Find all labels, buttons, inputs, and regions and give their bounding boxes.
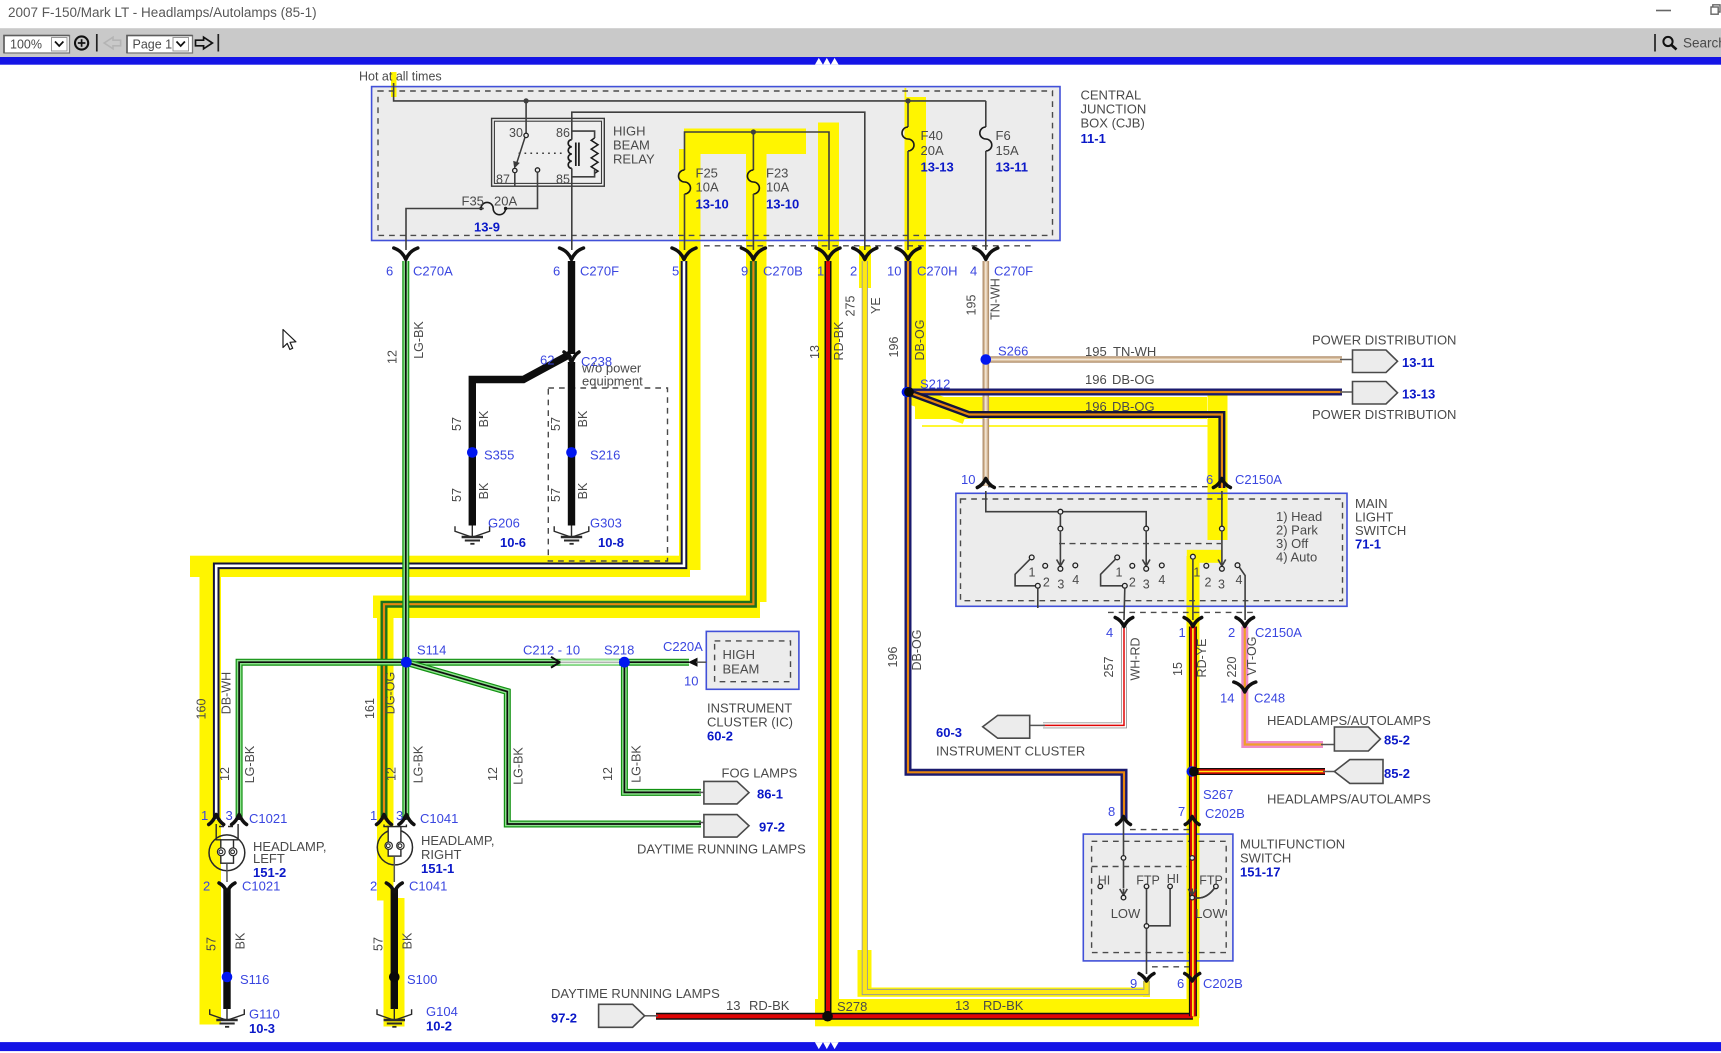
MLS connector dashed line top: [988, 486, 1212, 488]
bulb stem headlamp right: [393, 856, 395, 882]
svg-text:TN-WH: TN-WH: [1113, 344, 1156, 359]
connector C1021 pin2 exit arrow: [219, 883, 235, 892]
svg-text:4: 4: [970, 264, 977, 279]
connector MFS pin8 entry arrow: [1117, 817, 1131, 825]
svg-text:97-2: 97-2: [759, 820, 785, 835]
bulb plug headlamp left: [216, 824, 238, 840]
svg-text:DB-OG: DB-OG: [910, 630, 924, 671]
svg-text:BEAM: BEAM: [613, 138, 650, 153]
svg-text:INSTRUMENT: INSTRUMENT: [707, 701, 792, 716]
pentagon headlamps/autolamps 85-2 lower: [1334, 760, 1383, 784]
svg-text:13-10: 13-10: [696, 197, 729, 212]
svg-text:10: 10: [684, 674, 698, 689]
connector MLS pin10 entry arrow: [977, 479, 994, 488]
wire F25 to pin5 exit: [684, 194, 686, 250]
connector C248 arrow: [1234, 682, 1256, 692]
wire DG-OG 161 C270B-9 to headlamp right 1: [384, 261, 753, 820]
svg-text:85-2: 85-2: [1384, 733, 1410, 748]
wire VT-OG 220 MLS 2 to C248 to headlamps/autolamps 85-2: [1245, 627, 1323, 745]
wire group 1 output: [1037, 588, 1039, 608]
MLS mechanism dashed link: [1059, 543, 1221, 545]
svg-text:1: 1: [1193, 566, 1200, 580]
wire relay 86 rail to pin 2 exit: [572, 112, 865, 250]
highlight pin1 RD-BK run: [818, 123, 839, 1016]
wire group 3 pin1 output: [1192, 559, 1194, 620]
pentagon daytime running lamps 97-2 bottom: [599, 1004, 645, 1027]
svg-text:RD-BK: RD-BK: [983, 998, 1024, 1013]
wire F40 to pin10 exit: [907, 151, 909, 250]
svg-text:151-1: 151-1: [421, 861, 454, 876]
wire bus end to F6: [985, 101, 987, 127]
svg-text:97-2: 97-2: [551, 1011, 577, 1026]
connector C270H pin 10 exit arrow: [896, 248, 920, 260]
svg-text:C202B: C202B: [1203, 976, 1243, 991]
wire MLS pole3 arm: [1221, 531, 1223, 560]
highlight DB-WH left vertical: [200, 556, 222, 1025]
pentagon daytime running lamps 97-2: [704, 815, 749, 838]
node MFS left LOW contact: [1121, 895, 1126, 900]
relay coil core: [575, 143, 577, 167]
svg-text:2: 2: [370, 879, 377, 894]
svg-text:WH-RD: WH-RD: [1128, 637, 1142, 680]
splice S100: [389, 972, 400, 983]
svg-text:BOX (CJB): BOX (CJB): [1081, 116, 1145, 131]
relay coil top rail: [572, 131, 595, 140]
svg-text:RD-BK: RD-BK: [749, 998, 790, 1013]
svg-text:3: 3: [1143, 578, 1150, 592]
svg-text:57: 57: [450, 488, 464, 502]
svg-text:VT-OG: VT-OG: [1245, 637, 1259, 676]
svg-text:F35: F35: [462, 194, 484, 209]
node MLS rail junction: [1058, 509, 1063, 514]
highlight F23/pin9 run: [746, 132, 767, 602]
svg-text:HEADLAMPS/AUTOLAMPS: HEADLAMPS/AUTOLAMPS: [1267, 713, 1431, 728]
wire BK 57 C238 to S216 to G303: [568, 362, 575, 526]
svg-text:DAYTIME RUNNING LAMPS: DAYTIME RUNNING LAMPS: [637, 842, 806, 857]
wire TN-WH 195 C270F-4 to MLS 10: [982, 261, 989, 486]
switch group 2 arm: [1101, 559, 1123, 586]
svg-text:G104: G104: [426, 1004, 458, 1019]
splice S267: [1187, 766, 1197, 776]
zoom combo box: [4, 36, 70, 54]
connector C270B pin 9 exit arrow: [741, 248, 765, 260]
svg-text:10: 10: [961, 472, 975, 487]
node MFS right pole contact overlay: [1190, 856, 1195, 861]
svg-text:1: 1: [1029, 566, 1036, 580]
svg-text:275: 275: [844, 296, 858, 317]
svg-text:G206: G206: [488, 516, 520, 531]
bottom blue bar: [0, 1042, 1721, 1051]
highlight YE pin2 stub: [859, 246, 871, 288]
window restore button: [1711, 7, 1718, 14]
splice S114: [401, 657, 412, 668]
highlight 196 DB-OG horizontal: [915, 397, 1207, 419]
splice S218: [619, 657, 630, 668]
highlight F25/pin5 run: [679, 149, 701, 570]
fuse F40: [902, 127, 914, 151]
svg-text:DB-OG: DB-OG: [1112, 399, 1155, 414]
wire RD-YE 15 MLS 1 to S267 to MFS to S278: [1189, 627, 1197, 1017]
svg-text:10-8: 10-8: [598, 535, 624, 550]
wire RD-YE S267 to headlamps/autolamps 85-2: [1193, 768, 1325, 775]
high beam relay box: [492, 118, 605, 186]
svg-text:F6: F6: [996, 128, 1011, 143]
svg-text:20A: 20A: [494, 194, 517, 209]
svg-text:13-13: 13-13: [921, 160, 954, 175]
wire LG-BK 12 C270A-6 to S114 to headlamp right 3: [402, 261, 409, 820]
svg-text:1: 1: [201, 808, 208, 823]
wire MLS junction drop: [1059, 514, 1061, 526]
svg-text:151-17: 151-17: [1240, 865, 1280, 880]
wire LG-BK 12 headlamp left 3 to S114: [239, 662, 406, 820]
bulb stem headlamp left: [226, 863, 228, 882]
stub RD to pentagon 85-2 lower: [1323, 771, 1336, 773]
svg-text:LEFT: LEFT: [253, 851, 285, 866]
svg-text:CENTRAL: CENTRAL: [1081, 88, 1142, 103]
highlight RD-YE run: [1187, 556, 1200, 1018]
highlight F40/DB-OG run: [905, 97, 927, 394]
MLS interior: [986, 491, 1245, 620]
relay resistor: [591, 138, 598, 173]
svg-text:S116: S116: [240, 972, 269, 987]
svg-text:F25: F25: [696, 166, 718, 181]
node bus junction to relay 30: [524, 98, 529, 103]
wire WH-RD 257 MLS 4 to instrument cluster 60-3: [1043, 627, 1124, 726]
svg-text:2: 2: [1043, 576, 1050, 590]
svg-text:13-11: 13-11: [996, 160, 1029, 175]
svg-text:12: 12: [386, 350, 400, 364]
bulb circle headlamp right: [377, 830, 412, 865]
highlight MLS jump to pin1: [1187, 550, 1222, 563]
wire RD-BK 13 C270B-1 to S278: [825, 261, 832, 1016]
wire F35 to C270A exit: [406, 209, 484, 251]
svg-text:15A: 15A: [996, 143, 1019, 158]
svg-text:10A: 10A: [696, 180, 719, 195]
fuse F35: [481, 202, 506, 214]
svg-text:RD-BK: RD-BK: [832, 321, 846, 361]
pentagon fog lamps 86-1: [704, 781, 749, 804]
svg-text:6: 6: [1177, 976, 1184, 991]
highlight DB-WH bundle horizontal: [190, 556, 690, 577]
svg-text:57: 57: [205, 937, 219, 951]
svg-text:LG-BK: LG-BK: [412, 321, 426, 359]
wire FTP right swing arc overlay: [1195, 889, 1214, 899]
splice S216: [566, 447, 577, 458]
splice S212: [902, 387, 912, 397]
highlight DG-OG bundle horizontal: [373, 596, 760, 619]
svg-text:10-2: 10-2: [426, 1019, 452, 1034]
svg-text:12: 12: [601, 767, 615, 781]
svg-text:S266: S266: [998, 344, 1028, 359]
svg-text:HI: HI: [1098, 874, 1111, 888]
wire F35 feed from 87a: [506, 172, 538, 208]
svg-text:C1041: C1041: [409, 879, 447, 894]
svg-text:BEAM: BEAM: [723, 662, 760, 677]
svg-text:C1021: C1021: [249, 811, 287, 826]
wire bus to relay pin 30: [525, 101, 527, 133]
wire relay 85 to C270F exit: [571, 177, 573, 250]
splice S266: [981, 354, 992, 365]
svg-text:HI: HI: [1167, 872, 1180, 886]
svg-text:HEADLAMP,: HEADLAMP,: [421, 833, 494, 848]
MFS connector dashed line top: [1130, 829, 1190, 831]
wire DB-OG 196 C270H-10 to MFS 8: [908, 261, 1124, 820]
svg-text:S355: S355: [484, 448, 514, 463]
MLS fill: [956, 493, 1347, 606]
relay pin 30: [524, 133, 528, 137]
toolbar separator right: [1654, 34, 1656, 52]
multifunction switch box: [1083, 834, 1233, 961]
svg-text:14: 14: [1220, 691, 1234, 706]
connector C2150A pin 2 exit arrow: [1236, 618, 1254, 627]
svg-text:6: 6: [386, 264, 393, 279]
MFS mechanism dashed link: [1092, 866, 1187, 868]
headlamp left bulb: [209, 815, 247, 893]
svg-text:C1041: C1041: [420, 811, 458, 826]
svg-text:9: 9: [1130, 976, 1137, 991]
svg-text:TN-WH: TN-WH: [989, 278, 1003, 320]
wire fuse rail F25-F23-pin1: [685, 132, 830, 250]
svg-text:BK: BK: [576, 410, 590, 427]
svg-text:4: 4: [1158, 573, 1165, 587]
toolbar separator 2: [217, 34, 219, 52]
svg-text:57: 57: [549, 488, 563, 502]
svg-text:10-3: 10-3: [249, 1021, 275, 1036]
splice S278: [822, 1011, 833, 1022]
stub VT-OG to pentagon 85-2: [1321, 744, 1335, 746]
svg-text:2: 2: [203, 879, 210, 894]
high-beam relay U1: [513, 131, 598, 186]
svg-text:86: 86: [556, 126, 570, 140]
svg-text:C270F: C270F: [580, 264, 619, 279]
window minimize button: [1650, 0, 1721, 22]
svg-text:DB-WH: DB-WH: [220, 672, 234, 714]
svg-text:3: 3: [226, 808, 233, 823]
connector C202B pin 6 exit arrow: [1185, 974, 1200, 982]
highlight DG-OG right vertical: [377, 596, 394, 901]
connector C270F pin 4 exit arrow: [974, 248, 998, 260]
svg-text:87: 87: [496, 173, 510, 187]
svg-text:C270B: C270B: [763, 264, 803, 279]
svg-text:LG-BK: LG-BK: [630, 745, 644, 783]
svg-text:MULTIFUNCTION: MULTIFUNCTION: [1240, 837, 1345, 852]
wire MFS pin8 pole: [1123, 820, 1125, 856]
connector C270B pin 1 exit arrow: [816, 248, 840, 260]
connector C1041 pin1 entry arrow: [377, 815, 392, 825]
svg-text:60-2: 60-2: [707, 729, 733, 744]
svg-text:LG-BK: LG-BK: [412, 745, 426, 783]
connector C212-10 inline arrow: [551, 657, 560, 668]
svg-text:85-2: 85-2: [1384, 766, 1410, 781]
highlight C2150A-6 vertical: [1208, 395, 1228, 540]
highlight 196 thin stray line: [922, 425, 1217, 427]
node MFS HI contact right: [1168, 884, 1173, 889]
svg-text:2: 2: [1228, 625, 1235, 640]
headlamp right bulb: [377, 815, 414, 893]
CJB connector dashed line: [704, 245, 1032, 247]
svg-text:DG-OG: DG-OG: [384, 672, 398, 714]
svg-text:4: 4: [1106, 625, 1113, 640]
svg-text:3: 3: [1057, 578, 1064, 592]
connector C238 arrow: [564, 352, 579, 363]
highlight G104 BK vertical: [384, 898, 405, 1027]
connector MFS pin7 entry arrow: [1185, 817, 1199, 825]
svg-text:S218: S218: [604, 643, 634, 658]
wire BK 57 C270F-6 to C238: [568, 261, 575, 354]
svg-text:C202B: C202B: [1205, 806, 1245, 821]
svg-text:S216: S216: [590, 448, 620, 463]
svg-text:13: 13: [955, 998, 969, 1013]
svg-text:BK: BK: [477, 410, 491, 427]
wire BK 57 C238 branch to S355 to G206: [472, 354, 570, 526]
svg-text:7: 7: [1178, 804, 1185, 819]
svg-text:196: 196: [886, 647, 900, 668]
svg-text:5: 5: [672, 264, 679, 279]
svg-text:12: 12: [385, 767, 399, 781]
relay pin 87 stub: [514, 173, 516, 186]
svg-text:57: 57: [450, 417, 464, 431]
highlight YE bottom corner: [858, 950, 872, 995]
svg-text:10: 10: [887, 264, 901, 279]
svg-text:S212: S212: [920, 377, 950, 392]
wire BK 57 headlamp right 2 to S100 to G104: [391, 889, 398, 1009]
MLS connector dashed line bottom: [1108, 611, 1256, 613]
top blue bar: [0, 57, 1721, 65]
svg-text:9: 9: [741, 264, 748, 279]
node MFS FTP contact right: [1214, 884, 1219, 889]
switch group 3 arm: [1239, 567, 1245, 620]
wire DB-OG 196 S212 to C2150A-6 highlighted: [908, 392, 1222, 488]
node rail junction to F23: [751, 129, 756, 134]
svg-text:196: 196: [1085, 399, 1107, 414]
ground G206: [455, 526, 490, 544]
node MLS pole 3 upper contact: [1220, 526, 1225, 531]
svg-text:G110: G110: [249, 1007, 280, 1022]
relay switch arm: [517, 138, 525, 164]
svg-text:JUNCTION: JUNCTION: [1081, 102, 1147, 117]
svg-text:S278: S278: [837, 999, 867, 1014]
wire F6 to pin4 exit: [985, 151, 987, 250]
wire LG-BK 12 S114 to S218 to C220A high beam: [406, 659, 689, 666]
svg-text:LOW: LOW: [1111, 906, 1141, 921]
svg-text:HEADLAMPS/AUTOLAMPS: HEADLAMPS/AUTOLAMPS: [1267, 792, 1431, 807]
stub DB-OG to pentagon 13-13: [1340, 391, 1353, 393]
svg-text:HIGH: HIGH: [723, 647, 756, 662]
relay coil bottom rail: [572, 168, 595, 176]
svg-text:S100: S100: [407, 972, 437, 987]
search icon: [1663, 37, 1672, 46]
CJB fill: [372, 87, 1060, 241]
wire group 2 output to pin 4: [1123, 588, 1126, 620]
ground G104: [377, 1009, 412, 1027]
wire MLS pin10 feed rail: [986, 491, 1146, 526]
svg-text:BK: BK: [234, 932, 248, 949]
svg-text:C2150A: C2150A: [1235, 472, 1282, 487]
fuse F23: [747, 170, 759, 194]
page combo box: [127, 36, 193, 54]
svg-text:60-3: 60-3: [936, 725, 962, 740]
wire F23 to pin9 exit: [752, 194, 754, 250]
central junction box CJB: [372, 87, 1060, 241]
stub WH-RD to pentagon 60-3: [1029, 724, 1045, 726]
connector C1021 pin3 entry arrow: [232, 815, 247, 825]
svg-text:85: 85: [556, 173, 570, 187]
pentagon headlamps/autolamps 85-2 upper: [1334, 727, 1380, 751]
svg-text:HIGH: HIGH: [613, 124, 646, 139]
svg-text:160: 160: [195, 699, 209, 720]
svg-text:SWITCH: SWITCH: [1240, 851, 1291, 866]
svg-text:DAYTIME RUNNING LAMPS: DAYTIME RUNNING LAMPS: [551, 986, 720, 1001]
connector C220A inline arrow: [688, 658, 698, 667]
svg-text:C2150A: C2150A: [1255, 625, 1302, 640]
svg-text:71-1: 71-1: [1355, 537, 1381, 552]
connector C270B pin 5 exit arrow: [672, 248, 696, 260]
bottom bar page tear notches: [815, 1042, 839, 1049]
svg-text:161: 161: [363, 698, 377, 719]
stub LG-BK to pentagon 86-1: [699, 791, 705, 793]
svg-text:13-10: 13-10: [766, 197, 799, 212]
highlight CJB fuse rail: [684, 129, 806, 155]
svg-text:6: 6: [1206, 472, 1213, 487]
svg-text:C270F: C270F: [994, 264, 1033, 279]
svg-text:C220A: C220A: [663, 639, 703, 654]
MFS fill: [1083, 834, 1233, 961]
svg-text:1: 1: [1116, 566, 1123, 580]
w/o power equipment dashed box: [548, 388, 667, 561]
ground G110: [210, 1009, 245, 1027]
svg-text:86-1: 86-1: [757, 787, 783, 802]
bulb circle headlamp left: [209, 835, 245, 871]
svg-text:BK: BK: [401, 932, 415, 949]
fuse F6: [980, 127, 992, 151]
node MFS left pole contact: [1121, 856, 1126, 861]
wire DB-OG 196 S212 to power distribution 13-13: [908, 389, 1342, 396]
stub LG-BK to pentagon 97-2: [699, 822, 705, 824]
connector C270H pin 2 exit arrow: [853, 248, 877, 260]
svg-text:13-13: 13-13: [1402, 387, 1435, 402]
svg-text:6: 6: [553, 264, 560, 279]
connector MFS pin9 exit arrow: [1139, 974, 1154, 982]
svg-text:20A: 20A: [921, 143, 944, 158]
svg-text:LG-BK: LG-BK: [243, 745, 257, 783]
wire rail to F23: [752, 132, 754, 170]
switch group 1 contacts: [1029, 555, 1034, 560]
svg-text:257: 257: [1102, 657, 1116, 678]
next page arrow: [196, 37, 213, 49]
relay mechanism dotted link: [519, 152, 565, 154]
svg-text:BK: BK: [477, 482, 491, 499]
svg-text:1: 1: [1179, 625, 1186, 640]
svg-text:220: 220: [1225, 657, 1239, 678]
wire DB-WH 160 C270B-5 to headlamp left 1: [216, 261, 684, 820]
svg-text:12: 12: [486, 767, 500, 781]
wire FTP right swing arc: [1195, 889, 1214, 899]
wire MLS pole2 arm: [1145, 531, 1147, 560]
connector C1041 pin3 entry arrow: [399, 815, 414, 825]
svg-text:LOW: LOW: [1195, 906, 1225, 921]
node MFS right pole contact: [1190, 856, 1195, 861]
wire BK 57 headlamp left 2 to S116 to G110: [223, 889, 230, 1009]
node MFS FTP contact left: [1144, 884, 1149, 889]
svg-text:LG-BK: LG-BK: [512, 747, 526, 785]
wire YE 275 C270H-2 to MFS 9: [865, 261, 1147, 992]
splice S116: [222, 972, 233, 983]
connector C1041 dashes: [387, 826, 404, 828]
svg-text:S267: S267: [1203, 787, 1233, 802]
relay pin 87a: [535, 168, 539, 172]
svg-text:FTP: FTP: [1136, 874, 1160, 888]
connector MLS pin4 exit arrow: [1115, 618, 1133, 627]
